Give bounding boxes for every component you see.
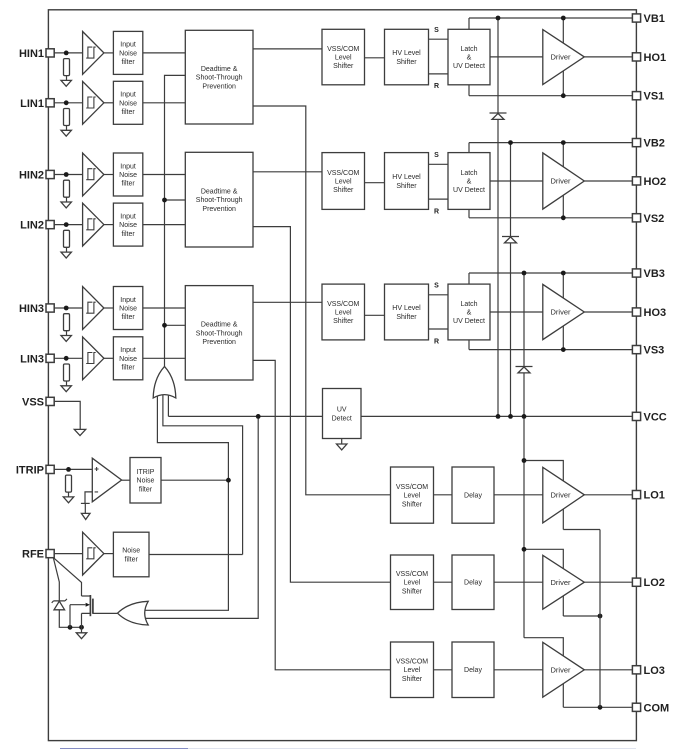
svg-text:Level: Level	[335, 178, 352, 185]
wire LIN1 resistor to ground	[66, 126, 68, 131]
RFE noise filter	[113, 532, 149, 577]
wire HIN2 input	[54, 174, 82, 176]
svg-text:HIN3: HIN3	[19, 303, 44, 315]
wire LO1 driver return	[563, 529, 600, 531]
node LO1 supply tap	[522, 458, 527, 463]
wire latch1 to driver	[490, 56, 543, 58]
wire fault branch to deadtime3	[165, 324, 186, 326]
svg-text:Latch: Latch	[460, 46, 477, 53]
driver LO2 low side	[543, 555, 585, 609]
node fault branch junction 2	[162, 198, 167, 203]
pin VS1	[632, 91, 664, 103]
svg-text:HIN2: HIN2	[19, 170, 44, 182]
ground ITRIP resistor	[63, 497, 73, 503]
wire deadtime2 low-side out to LO2 shifter	[253, 227, 391, 583]
input noise filter LIN3	[113, 337, 142, 380]
input noise filter HIN1	[113, 31, 142, 74]
svg-text:Driver: Driver	[551, 308, 572, 317]
svg-text:Shifter: Shifter	[402, 588, 423, 595]
comparator ITRIP	[92, 458, 121, 502]
svg-text:Driver: Driver	[551, 578, 572, 587]
wire LO2 driver return	[563, 615, 600, 617]
svg-text:Latch: Latch	[460, 301, 477, 308]
svg-text:LO3: LO3	[644, 665, 665, 677]
node clamp ground junction a	[68, 625, 73, 630]
svg-text:Input: Input	[120, 92, 136, 99]
wire delay3 to driver	[494, 669, 543, 671]
svg-text:Prevention: Prevention	[202, 339, 236, 346]
svg-text:Prevention: Prevention	[202, 206, 236, 213]
latch and UV detect 2	[448, 153, 490, 210]
VSS/COM level shifter 1	[322, 29, 365, 85]
wire bootstrap/VCC rail 3	[523, 273, 525, 638]
svg-text:Shifter: Shifter	[333, 187, 354, 194]
svg-text:Delay: Delay	[464, 580, 482, 587]
svg-text:VSS/COM: VSS/COM	[327, 46, 359, 53]
node LIN1 junction	[64, 100, 69, 105]
svg-text:UV Detect: UV Detect	[453, 187, 485, 194]
svg-text:filter: filter	[121, 109, 135, 116]
pin VS3	[632, 345, 664, 357]
wire RFE to zener	[53, 558, 59, 601]
svg-text:Shoot-Through: Shoot-Through	[196, 197, 243, 204]
pin HO3	[632, 307, 666, 319]
wire LO2 driver supply rail	[524, 549, 563, 616]
pin HIN1	[19, 48, 54, 60]
svg-text:Driver: Driver	[551, 177, 572, 186]
node fault branch junction 3	[162, 323, 167, 328]
svg-text:Input: Input	[120, 213, 136, 220]
wire LO1 driver supply rail	[524, 461, 563, 530]
svg-text:Shifter: Shifter	[333, 63, 354, 70]
wire set S row 2	[429, 163, 449, 165]
node LO2 return junction	[598, 614, 603, 619]
latch and UV detect 3	[448, 284, 490, 340]
wire latch2 VB stub	[468, 143, 470, 153]
wire latch3 VB stub	[468, 273, 470, 284]
input noise filter HIN3	[113, 287, 142, 330]
resistor LIN3 pulldown	[64, 364, 70, 381]
pin LO3	[632, 665, 665, 677]
node driver3 VS tap	[561, 347, 566, 352]
svg-text:Shoot-Through: Shoot-Through	[196, 75, 243, 82]
svg-text:Noise: Noise	[119, 222, 137, 229]
node bootstrap2 VCC tap	[508, 414, 513, 419]
wire driver to LO1 pin	[584, 494, 632, 496]
wire LO3 driver return to COM	[563, 706, 632, 708]
driver LO3 low side	[543, 642, 585, 697]
svg-text:HO3: HO3	[644, 307, 667, 319]
deadtime and shoot-through prevention 1	[185, 30, 253, 124]
pin LIN3	[20, 353, 54, 365]
bootstrap diode D2	[502, 237, 519, 243]
wire ITRIP fault line	[144, 396, 228, 611]
ground HIN2	[61, 202, 71, 208]
svg-text:&: &	[467, 55, 472, 62]
wire LO2 shifter to delay	[434, 581, 453, 583]
node LIN3 junction	[64, 356, 69, 361]
svg-text:filter: filter	[121, 314, 135, 321]
svg-text:filter: filter	[121, 181, 135, 188]
resistor LIN2 pulldown	[64, 230, 70, 247]
wire HIN2 resistor to ground	[66, 197, 68, 202]
wire HIN3 buffer to filter	[104, 307, 114, 309]
wire reset R row 2	[429, 198, 449, 200]
wire fault OR output to deadtime1	[165, 75, 186, 366]
pin RFE	[22, 549, 54, 561]
wire LIN3 noise filter to deadtime	[143, 357, 186, 359]
wire RFE filter output	[149, 554, 243, 556]
svg-text:Deadtime &: Deadtime &	[201, 188, 238, 195]
svg-text:Shifter: Shifter	[396, 183, 417, 190]
schmitt buffer LIN3	[83, 337, 104, 380]
pin ITRIP	[16, 464, 54, 476]
wire HIN3 input	[54, 307, 82, 309]
wire COM return rail	[599, 530, 601, 708]
wire RFE input	[54, 553, 82, 555]
svg-text:VSS/COM: VSS/COM	[327, 301, 359, 308]
wire VB3 net	[469, 272, 632, 274]
schmitt buffer HIN1	[83, 32, 104, 75]
svg-text:VSS/COM: VSS/COM	[396, 571, 428, 578]
wire HIN1 noise filter to deadtime	[143, 52, 186, 54]
svg-text:HV Level: HV Level	[392, 174, 421, 181]
wire VB1 net	[469, 17, 632, 19]
svg-text:ITRIP: ITRIP	[137, 469, 155, 476]
delay block LO3	[452, 642, 494, 698]
wire LIN2 buffer to filter	[104, 224, 114, 226]
svg-text:UV Detect: UV Detect	[453, 63, 485, 70]
wire LIN1 buffer to filter	[104, 102, 114, 104]
resistor ITRIP pulldown	[66, 475, 72, 492]
pin HIN3	[19, 303, 54, 315]
svg-text:&: &	[467, 178, 472, 185]
wire level shifter2 to HV shifter	[365, 182, 385, 184]
svg-text:Driver: Driver	[551, 665, 572, 674]
wire driver2 supply rail	[562, 143, 564, 218]
wire deadtime2 to level shifter	[253, 171, 322, 173]
resistor HIN3 pulldown	[64, 314, 70, 331]
svg-text:Input: Input	[120, 163, 136, 170]
svg-text:Shifter: Shifter	[402, 501, 423, 508]
svg-text:Level: Level	[404, 580, 421, 587]
wire deadtime1 low-side out to LO1 shifter	[253, 106, 391, 495]
wire driver to LO3 pin	[584, 669, 632, 671]
resistor HIN1 pulldown	[64, 59, 70, 76]
driver U1 high side	[543, 30, 585, 85]
svg-text:ITRIP: ITRIP	[16, 464, 44, 476]
pin LIN1	[20, 98, 54, 110]
wire VB2 net	[469, 142, 632, 144]
wire reset R row 3	[429, 328, 449, 330]
svg-text:Level: Level	[335, 309, 352, 316]
VSS/COM level shifter LO3	[391, 642, 434, 698]
svg-text:Deadtime &: Deadtime &	[201, 66, 238, 73]
wire LIN2 noise filter to deadtime	[143, 224, 186, 226]
wire LIN3 input	[54, 357, 82, 359]
delay block LO2	[452, 555, 494, 610]
wire bootstrap rail 1	[497, 18, 499, 416]
pin LO2	[632, 577, 665, 589]
wire comparator minus reference	[85, 492, 92, 504]
svg-text:RFE: RFE	[22, 549, 44, 561]
svg-text:Latch: Latch	[460, 170, 477, 177]
svg-text:Driver: Driver	[551, 490, 572, 499]
svg-text:Noise: Noise	[122, 548, 140, 555]
wire LIN2 resistor to ground	[66, 247, 68, 252]
wire UV line to RFE OR gate	[145, 416, 259, 618]
wire LO3 shifter to delay	[434, 669, 453, 671]
wire RFE buffer to filter	[104, 553, 114, 555]
svg-text:Deadtime &: Deadtime &	[201, 322, 238, 329]
VSS/COM level shifter LO2	[391, 555, 434, 610]
schmitt buffer HIN3	[83, 287, 104, 330]
wire RFE OR output to FET gate	[93, 612, 118, 614]
svg-text:filter: filter	[139, 486, 153, 493]
wire HIN1 buffer to filter	[104, 52, 114, 54]
svg-text:UV: UV	[337, 407, 347, 414]
wire delay2 to driver	[494, 581, 543, 583]
svg-text:VSS/COM: VSS/COM	[327, 170, 359, 177]
wire delay1 to driver	[494, 494, 543, 496]
ground LIN3	[61, 386, 71, 392]
svg-text:VSS: VSS	[22, 396, 44, 408]
svg-text:Detect: Detect	[332, 415, 352, 422]
svg-text:UV Detect: UV Detect	[453, 318, 485, 325]
schmitt buffer HIN2	[83, 153, 104, 196]
svg-text:Noise: Noise	[119, 172, 137, 179]
pin HIN2	[19, 170, 54, 182]
zener diode RFE clamp	[52, 599, 67, 610]
svg-text:LIN2: LIN2	[20, 220, 44, 232]
input noise filter LIN2	[113, 203, 142, 246]
svg-text:VB2: VB2	[644, 138, 665, 150]
pin HO2	[632, 176, 666, 188]
svg-text:VSS/COM: VSS/COM	[396, 484, 428, 491]
wire latch3 to driver	[490, 311, 543, 313]
resistor LIN1 pulldown	[64, 109, 70, 126]
node UV junction	[256, 414, 261, 419]
svg-text:filter: filter	[121, 59, 135, 66]
svg-text:Level: Level	[404, 667, 421, 674]
wire LO3 driver supply rail	[524, 638, 563, 708]
schmitt buffer RFE	[83, 532, 104, 575]
svg-text:R: R	[434, 338, 439, 345]
wire driver2 to HO2 pin	[584, 180, 632, 182]
svg-text:Delay: Delay	[464, 493, 482, 500]
input noise filter LIN1	[113, 81, 142, 124]
svg-text:HV Level: HV Level	[392, 50, 421, 57]
pin VB2	[632, 138, 665, 150]
HV level shifter 2	[385, 153, 429, 210]
svg-text:LIN3: LIN3	[20, 353, 44, 365]
svg-text:filter: filter	[125, 556, 139, 563]
input noise filter HIN2	[113, 153, 142, 196]
wire VCC net	[361, 415, 632, 417]
wire VS2 net	[469, 217, 632, 219]
driver U2 high side	[543, 153, 585, 209]
wire ITRIP filter output	[161, 479, 228, 481]
wire RFE to clamp FET drain	[53, 558, 81, 596]
node driver2 VB tap	[561, 140, 566, 145]
ground UV detect stub	[341, 439, 343, 445]
VSS/COM level shifter 2	[322, 153, 365, 210]
wire HIN2 buffer to filter	[104, 174, 114, 176]
svg-text:HO2: HO2	[644, 176, 667, 188]
node driver1 VB tap	[561, 16, 566, 21]
svg-text:HO1: HO1	[644, 52, 667, 64]
svg-text:Noise: Noise	[137, 478, 155, 485]
svg-text:Noise: Noise	[119, 305, 137, 312]
svg-text:VSS/COM: VSS/COM	[396, 659, 428, 666]
wire VS1 net	[469, 95, 632, 97]
wire latch3 VS stub	[468, 340, 470, 350]
HV level shifter 3	[385, 284, 429, 340]
latch and UV detect 1	[448, 29, 490, 85]
svg-text:VCC: VCC	[644, 411, 667, 423]
svg-text:filter: filter	[121, 231, 135, 238]
svg-text:VB3: VB3	[644, 268, 665, 280]
ground HIN1	[61, 80, 71, 86]
wire bootstrap rail 2	[510, 143, 512, 417]
wire FET body to ground	[69, 605, 71, 628]
node LO2 supply tap	[522, 547, 527, 552]
pin VB1	[632, 13, 665, 25]
svg-text:Driver: Driver	[551, 53, 572, 62]
wire set S row 1	[429, 38, 449, 40]
pin VSS	[22, 396, 54, 408]
node driver1 VS tap	[561, 93, 566, 98]
svg-text:Input: Input	[120, 347, 136, 354]
svg-text:VS1: VS1	[644, 91, 665, 103]
wire HIN1 resistor to ground	[66, 76, 68, 81]
node bootstrap tap VB3	[522, 271, 527, 276]
svg-text:Input: Input	[120, 297, 136, 304]
wire VS3 net	[469, 349, 632, 351]
ground LIN1	[61, 130, 71, 136]
driver U3 high side	[543, 284, 585, 339]
wire LIN3 buffer to filter	[104, 357, 114, 359]
svg-text:filter: filter	[121, 364, 135, 371]
node HIN2 junction	[64, 172, 69, 177]
wire latch1 VB stub	[468, 18, 470, 29]
footer blue line	[60, 748, 188, 750]
node driver2 VS tap	[561, 215, 566, 220]
VSS/COM level shifter 3	[322, 284, 365, 340]
wire ITRIP resistor to ground	[68, 492, 70, 497]
node COM junction	[598, 705, 603, 710]
svg-text:S: S	[434, 283, 439, 290]
svg-text:Noise: Noise	[119, 100, 137, 107]
pin LIN2	[20, 220, 54, 232]
delay block LO1	[452, 467, 494, 523]
wire level shifter3 to HV shifter	[365, 314, 385, 316]
wire ITRIP input	[54, 468, 92, 470]
wire LO1 shifter to delay	[434, 494, 453, 496]
wire deadtime3 low-side out to LO3 shifter	[253, 360, 391, 669]
svg-text:R: R	[434, 208, 439, 215]
wire latch1 VS stub	[468, 85, 470, 96]
pin VS2	[632, 213, 664, 225]
svg-text:Noise: Noise	[119, 50, 137, 57]
svg-text:Input: Input	[120, 42, 136, 49]
wire UV fault stub	[167, 396, 169, 417]
wire LIN2 input	[54, 224, 82, 226]
svg-text:LO1: LO1	[644, 490, 665, 502]
svg-text:Noise: Noise	[119, 356, 137, 363]
node driver3 VB tap	[561, 271, 566, 276]
pin VCC	[632, 411, 666, 423]
wire fault branch to deadtime2	[165, 199, 186, 201]
pin LO1	[632, 490, 665, 502]
bootstrap diode D3	[516, 367, 533, 373]
wire deadtime1 to level shifter	[253, 48, 322, 50]
ground UV detect	[337, 444, 347, 450]
ground ITRIP reference	[81, 513, 90, 519]
svg-text:LO2: LO2	[644, 577, 665, 589]
svg-text:&: &	[467, 309, 472, 316]
wire RFE fault line	[163, 394, 243, 555]
wire VSS to ground	[54, 401, 80, 429]
wire HIN1 input	[54, 52, 82, 54]
deadtime and shoot-through prevention 3	[185, 286, 253, 380]
wire driver1 supply rail	[562, 18, 564, 96]
svg-text:HIN1: HIN1	[19, 48, 44, 60]
svg-text:HV Level: HV Level	[392, 305, 421, 312]
resistor HIN2 pulldown	[64, 180, 70, 197]
wire HIN3 noise filter to deadtime	[143, 307, 186, 309]
ITRIP noise filter	[130, 458, 161, 504]
driver LO1 low side	[543, 467, 585, 523]
wire level shifter1 to HV shifter	[365, 57, 385, 59]
schmitt buffer LIN2	[83, 203, 104, 246]
svg-text:VS3: VS3	[644, 345, 665, 357]
UV detect block	[323, 389, 362, 439]
svg-text:Shifter: Shifter	[396, 59, 417, 66]
schmitt buffer LIN1	[83, 81, 104, 124]
node bootstrap tap VB2	[508, 140, 513, 145]
wire reset R row 1	[429, 73, 449, 75]
svg-text:Shoot-Through: Shoot-Through	[196, 330, 243, 337]
OR gate RFE clamp	[118, 601, 149, 625]
wire latch2 VS stub	[468, 209, 470, 217]
svg-text:VB1: VB1	[644, 13, 665, 25]
node HIN1 junction	[64, 51, 69, 56]
VSS/COM level shifter LO1	[391, 467, 434, 523]
ground VSS	[74, 429, 85, 435]
wire ground stub clamp	[81, 627, 83, 633]
wire LIN1 input	[54, 102, 82, 104]
wire LIN3 resistor to ground	[66, 381, 68, 386]
node bootstrap tap VB1	[496, 16, 501, 21]
node LIN2 junction	[64, 222, 69, 227]
wire deadtime3 to level shifter	[253, 301, 322, 303]
wire latch2 to driver	[490, 180, 543, 182]
node HIN3 junction	[64, 306, 69, 311]
wire LIN1 noise filter to deadtime	[143, 102, 186, 104]
ground HIN3	[61, 336, 71, 342]
node bootstrap3 VCC tap	[522, 414, 527, 419]
HV level shifter 1	[385, 29, 429, 85]
wire driver to LO2 pin	[584, 581, 632, 583]
svg-text:VS2: VS2	[644, 213, 665, 225]
svg-text:S: S	[434, 27, 439, 34]
svg-text:Shifter: Shifter	[396, 314, 417, 321]
bootstrap diode D1	[490, 113, 507, 119]
pin COM	[632, 702, 669, 714]
wire driver3 to HO3 pin	[584, 311, 632, 313]
reference bar ITRIP comparator	[81, 502, 90, 504]
